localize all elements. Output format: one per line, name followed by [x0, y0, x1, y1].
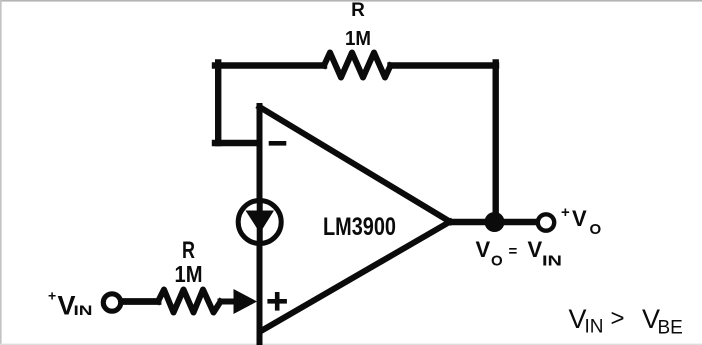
wire: stub into inverting input — [215, 140, 259, 146]
wire: top feedback right segment — [391, 62, 497, 68]
wire: output from apex — [450, 219, 537, 225]
label V_IN > V_BE — [569, 304, 683, 339]
scan edge artifact bottom — [0, 344, 702, 345]
svg-text:O: O — [491, 253, 503, 270]
label V_O = V_IN — [476, 237, 563, 270]
svg-text:IN: IN — [542, 253, 562, 270]
svg-text:R: R — [182, 237, 195, 264]
node: output junction dot — [485, 212, 505, 232]
svg-text:V: V — [476, 237, 491, 262]
input arrowhead into + input — [234, 289, 258, 314]
svg-text:1M: 1M — [345, 28, 371, 50]
svg-text:IN: IN — [74, 303, 93, 318]
scan edge artifact top — [0, 0, 702, 2]
svg-text:R: R — [351, 0, 365, 21]
minus sign (inverting input) — [269, 141, 287, 146]
resistor R2 zigzag (input 1M) — [158, 290, 221, 313]
svg-text:>: > — [611, 305, 625, 332]
svg-text:1M: 1M — [175, 261, 203, 287]
wire: short segment to arrowhead — [221, 299, 237, 305]
wire: top feedback left segment — [215, 62, 324, 68]
resistor R1 zigzag (top 1M) — [324, 53, 391, 78]
svg-text:BE: BE — [658, 318, 683, 339]
scan edge artifact left — [0, 0, 2, 345]
terminal: output open circle — [538, 214, 554, 230]
svg-text:V: V — [572, 206, 587, 231]
svg-text:=: = — [509, 243, 518, 260]
label +V_IN (input terminal) — [48, 288, 93, 321]
terminal: input open circle — [103, 294, 120, 311]
current source I1 circle — [238, 201, 281, 244]
op-amp U1 triangle left edge — [257, 106, 263, 343]
wire: left vertical of feedback — [215, 63, 221, 144]
svg-text:IN: IN — [585, 317, 604, 338]
svg-text:O: O — [590, 221, 602, 238]
svg-text:LM3900: LM3900 — [323, 213, 396, 241]
current source I1 down arrow — [246, 211, 275, 234]
svg-text:V: V — [528, 237, 543, 262]
wire: input segment from terminal to resistor — [122, 298, 158, 305]
op-amp U1 triangle top hypotenuse — [260, 107, 451, 222]
current source I1 shaft — [257, 200, 263, 244]
svg-text:+: + — [561, 204, 570, 221]
svg-text:+: + — [48, 288, 56, 304]
label +V_O (output terminal) — [561, 204, 602, 238]
op-amp U1 triangle bottom hypotenuse — [261, 222, 450, 331]
wire: right vertical of feedback — [493, 63, 499, 221]
plus sign (non-inverting input) — [267, 292, 287, 311]
